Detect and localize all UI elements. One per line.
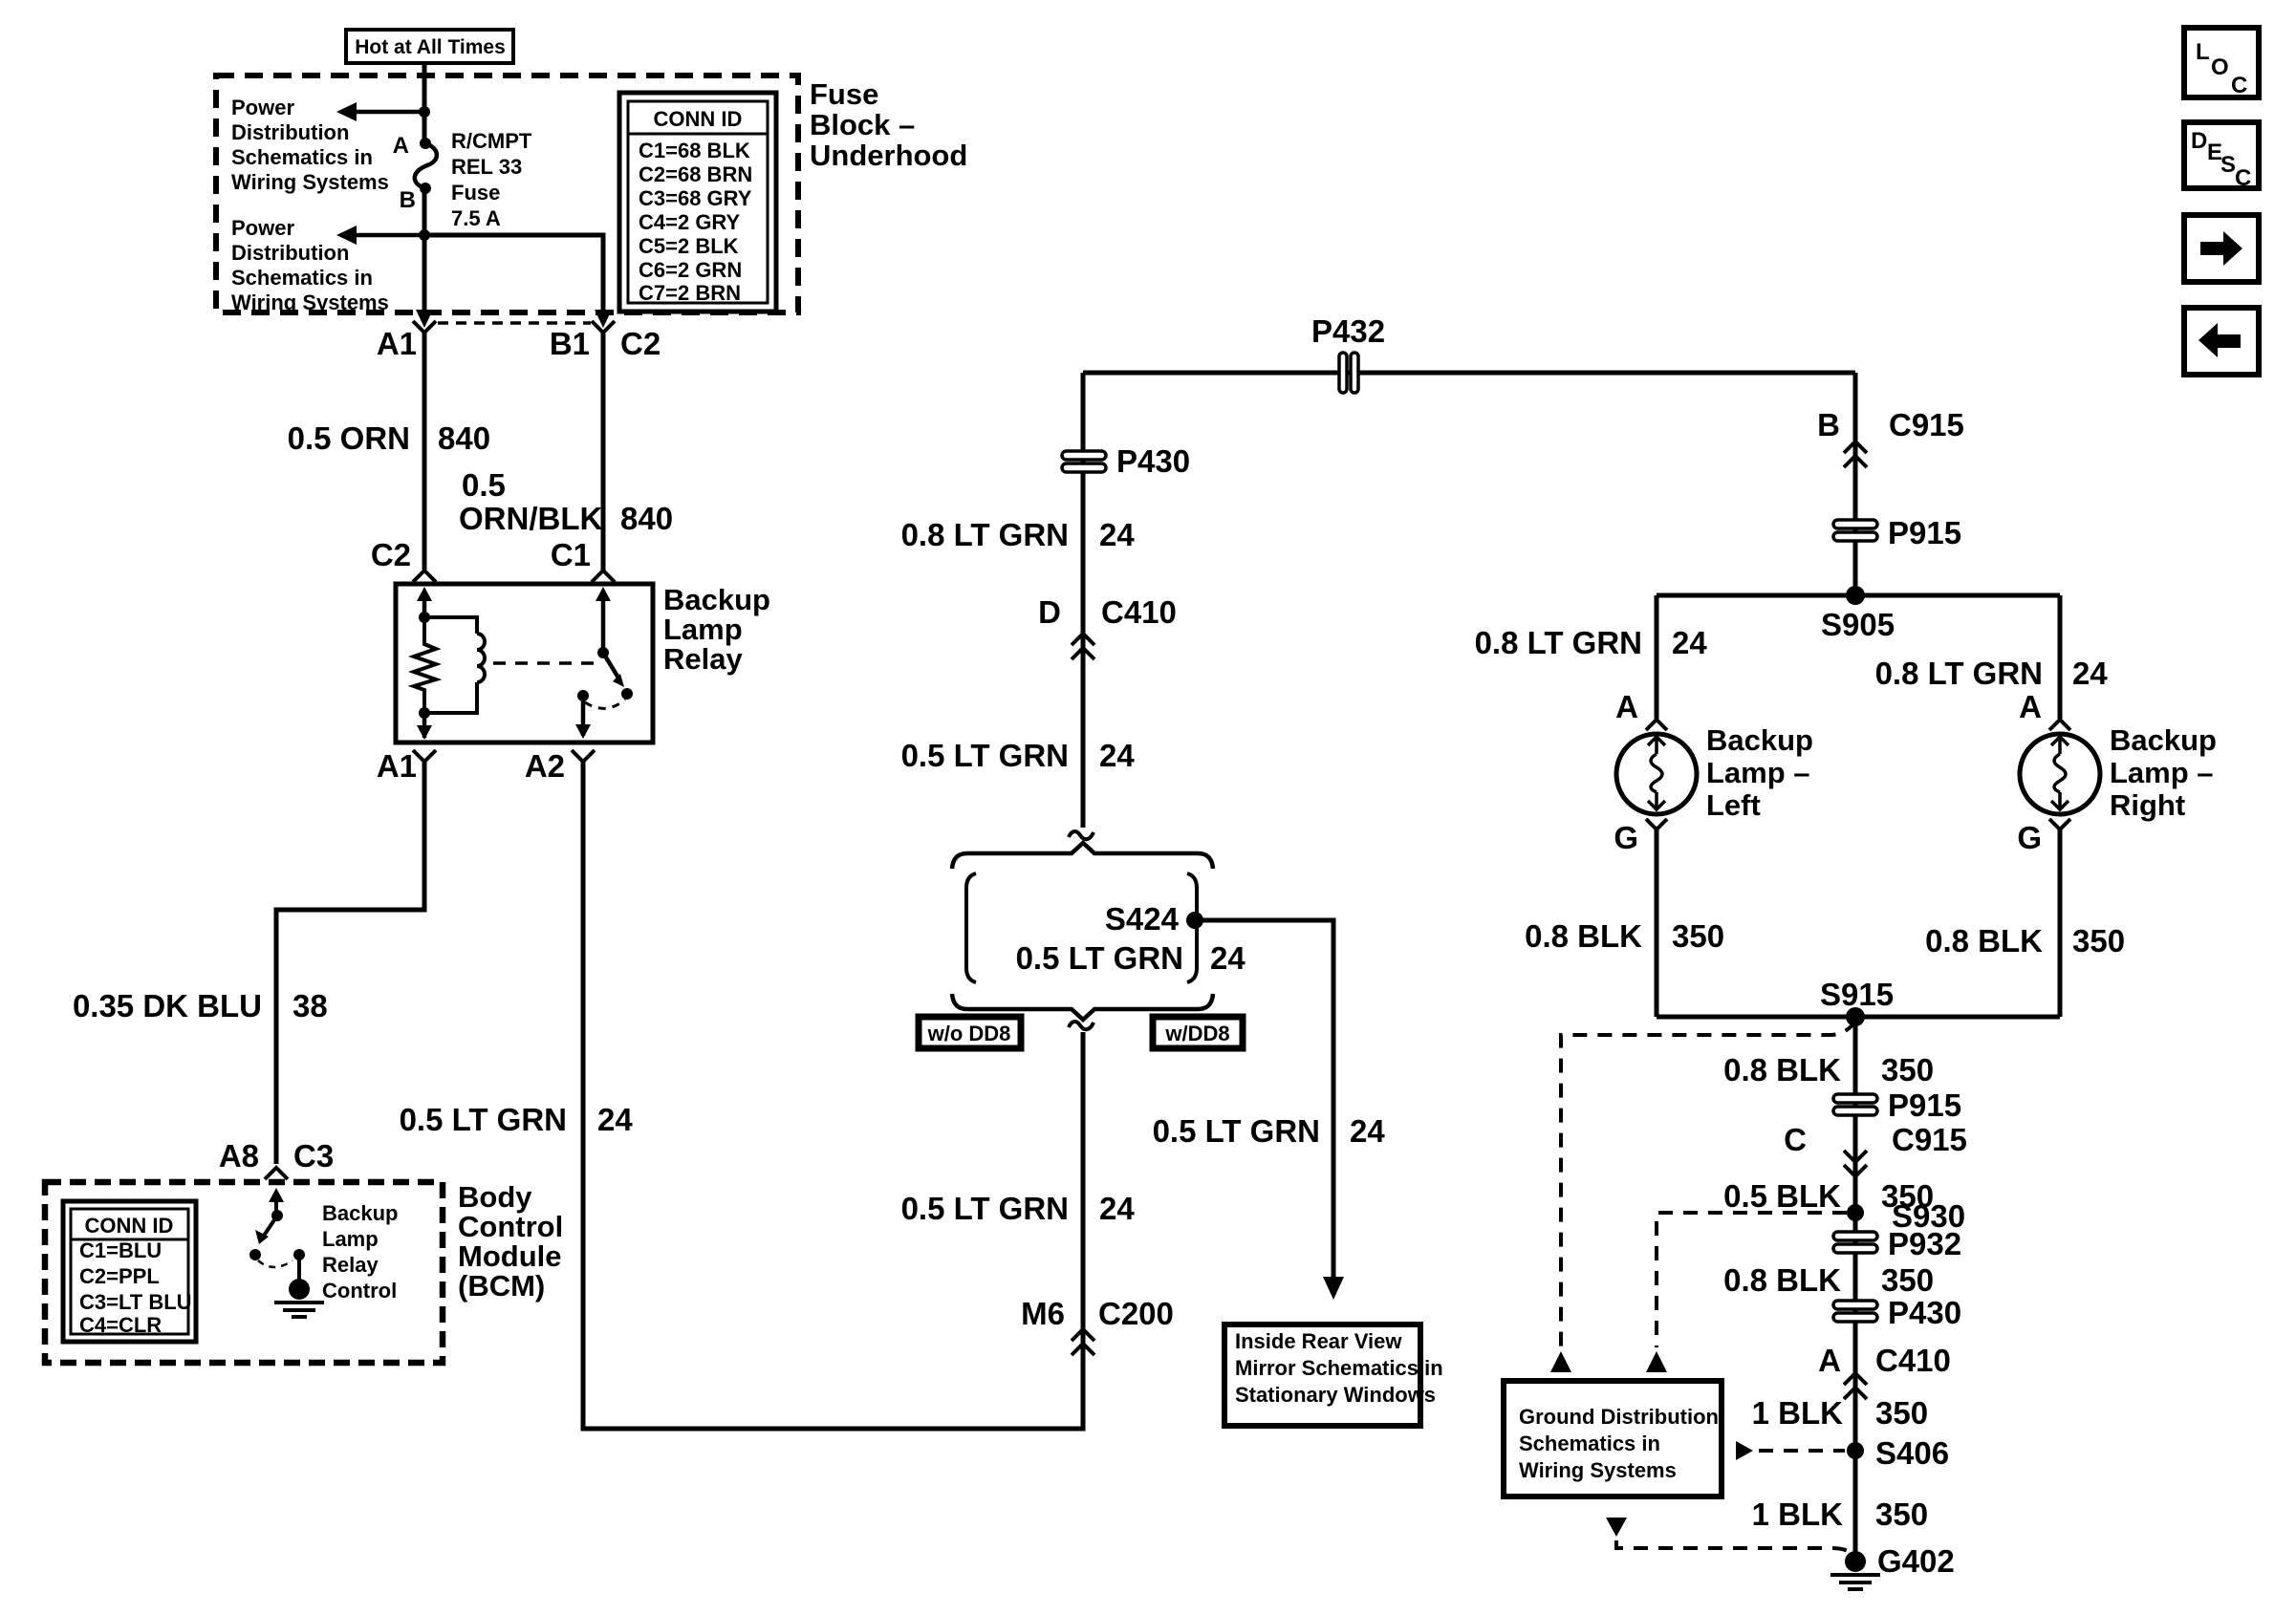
svg-text:38: 38 [292, 988, 328, 1023]
wire: 0.5 ORN/BLK 840 [601, 333, 606, 571]
svg-text:O: O [2211, 54, 2229, 80]
svg-text:D: D [2191, 128, 2207, 154]
svg-text:C410: C410 [1875, 1343, 1951, 1378]
splice S930 [1847, 1204, 1864, 1221]
relay coil [424, 617, 477, 634]
svg-text:Wiring Systems: Wiring Systems [1519, 1458, 1677, 1482]
svg-text:Left: Left [1706, 788, 1761, 822]
svg-text:D: D [1038, 594, 1061, 630]
pin A2 chevron [572, 750, 595, 762]
fuse block dashed box [216, 75, 798, 312]
lamp left pin G chevron [1646, 819, 1667, 829]
svg-text:350: 350 [1672, 918, 1724, 954]
svg-text:24: 24 [1672, 625, 1707, 660]
svg-text:0.8 BLK: 0.8 BLK [1723, 1262, 1841, 1298]
svg-text:G: G [2017, 820, 2042, 855]
svg-text:24: 24 [1210, 940, 1245, 976]
lamp left pin A chevron [1646, 720, 1667, 730]
svg-text:Mirror Schematics in: Mirror Schematics in [1235, 1356, 1443, 1380]
svg-text:840: 840 [438, 420, 490, 456]
wire: lamp feed horizontal S905 [1657, 593, 2060, 598]
svg-text:0.8 LT GRN: 0.8 LT GRN [1475, 625, 1642, 660]
arrowhead up left [1550, 1351, 1571, 1372]
svg-text:P915: P915 [1888, 515, 1961, 550]
svg-text:C6=2 GRN: C6=2 GRN [639, 258, 742, 282]
svg-text:C1=BLU: C1=BLU [79, 1238, 162, 1262]
svg-text:Backup: Backup [322, 1201, 398, 1225]
inside rear view mirror note box [1224, 1324, 1420, 1426]
svg-text:C3: C3 [293, 1138, 334, 1174]
wire: to right backup lamp [2058, 595, 2063, 719]
svg-text:P430: P430 [1116, 443, 1190, 479]
svg-text:C200: C200 [1098, 1296, 1174, 1331]
svg-text:P915: P915 [1888, 1087, 1961, 1123]
svg-text:24: 24 [1099, 1191, 1135, 1226]
junction: feed split 2 [419, 229, 430, 241]
ground G402 [1845, 1551, 1866, 1572]
svg-text:C: C [2231, 73, 2247, 98]
svg-text:0.5 LT GRN: 0.5 LT GRN [1016, 940, 1183, 976]
brace top [952, 843, 1213, 869]
relay pin C2 chevron [413, 571, 436, 582]
wire: S915 ground bus [1657, 1015, 2060, 1020]
svg-text:C7=2 BRN: C7=2 BRN [639, 281, 741, 305]
wire: battery feed from Hot at All Times [422, 63, 427, 141]
switch contact [577, 690, 589, 701]
arrow: to Power Distribution (upper) [355, 110, 424, 115]
lamp right pin G chevron [2049, 819, 2070, 829]
svg-text:0.5 LT GRN: 0.5 LT GRN [1153, 1113, 1320, 1149]
Hot at All Times box [346, 30, 513, 63]
svg-text:C2: C2 [620, 326, 661, 361]
svg-text:0.5 LT GRN: 0.5 LT GRN [901, 1191, 1069, 1226]
svg-text:0.35 DK BLU: 0.35 DK BLU [73, 988, 262, 1023]
svg-text:C1: C1 [551, 537, 591, 572]
svg-text:Distribution: Distribution [231, 241, 349, 265]
svg-text:350: 350 [1875, 1395, 1928, 1431]
svg-text:24: 24 [1350, 1113, 1385, 1149]
svg-text:Control: Control [458, 1210, 563, 1243]
svg-text:0.8 BLK: 0.8 BLK [1525, 918, 1642, 954]
junction: feed split 1 [419, 106, 430, 118]
wire: down to C915 B [1853, 373, 1858, 595]
svg-text:0.8 LT GRN: 0.8 LT GRN [1875, 656, 2043, 691]
wire: relay A1 to BCM A8 (0.35 DK BLU 38) [276, 762, 424, 1164]
svg-text:P932: P932 [1888, 1226, 1961, 1261]
svg-text:Block –: Block – [810, 108, 915, 141]
lamp right pin A chevron [2049, 720, 2070, 730]
svg-text:350: 350 [1875, 1497, 1928, 1532]
svg-text:Wiring Systems: Wiring Systems [231, 291, 389, 314]
svg-text:Lamp: Lamp [322, 1227, 379, 1251]
svg-text:Right: Right [2110, 788, 2185, 822]
svg-text:C5=2 BLK: C5=2 BLK [639, 234, 739, 258]
svg-text:A2: A2 [525, 748, 565, 784]
wire break squiggle upper [1069, 831, 1094, 839]
svg-text:A: A [2019, 689, 2042, 724]
svg-text:(BCM): (BCM) [458, 1269, 545, 1303]
svg-text:Backup: Backup [1706, 723, 1813, 757]
switch blade end contact [621, 688, 633, 700]
arrowhead down at A1 exit [416, 310, 433, 328]
svg-text:ORN/BLK: ORN/BLK [459, 501, 602, 536]
svg-text:Wiring Systems: Wiring Systems [231, 170, 389, 194]
pin A1 chevron [413, 750, 436, 762]
fuse R/CMPT REL 33 7.5A [420, 138, 431, 149]
svg-text:w/o DD8: w/o DD8 [927, 1022, 1011, 1045]
pin A1 chevron [413, 321, 436, 333]
svg-text:Hot at All Times: Hot at All Times [355, 36, 506, 58]
svg-text:Lamp –: Lamp – [2110, 756, 2214, 789]
svg-text:0.8 BLK: 0.8 BLK [1723, 1052, 1841, 1087]
icon box LOC [2184, 28, 2259, 97]
svg-text:CONN ID: CONN ID [654, 107, 743, 131]
CONN ID table (fuse block) [619, 93, 776, 312]
icon box DESC [2184, 122, 2259, 188]
svg-text:A: A [393, 133, 409, 159]
svg-text:7.5 A: 7.5 A [451, 206, 501, 230]
w/o DD8 tag [919, 1017, 1021, 1048]
svg-text:C: C [2235, 165, 2251, 191]
connector P932 [1833, 1232, 1877, 1240]
w/DD8 tag [1153, 1017, 1243, 1048]
svg-text:Inside Rear View: Inside Rear View [1235, 1329, 1402, 1353]
svg-text:C410: C410 [1101, 594, 1177, 630]
arrow: to Power Distribution (lower) [355, 233, 424, 238]
svg-text:0.8 BLK: 0.8 BLK [1925, 923, 2043, 958]
svg-text:350: 350 [1881, 1052, 1934, 1087]
svg-text:C3=LT BLU: C3=LT BLU [79, 1290, 192, 1314]
svg-text:0.5 BLK: 0.5 BLK [1723, 1178, 1841, 1214]
connector C410 double chevron [1072, 634, 1094, 645]
svg-text:Lamp –: Lamp – [1706, 756, 1810, 789]
splice S406 [1847, 1442, 1864, 1459]
svg-text:S905: S905 [1821, 607, 1895, 642]
svg-text:1 BLK: 1 BLK [1752, 1497, 1844, 1532]
svg-text:P430: P430 [1888, 1295, 1961, 1330]
wire: relay A2 down-right-up to M6 C200 (0.5 LT GRN 24) [583, 762, 1083, 1429]
svg-text:0.5 LT GRN: 0.5 LT GRN [901, 738, 1069, 773]
splice S424 [1186, 912, 1203, 929]
svg-text:24: 24 [1099, 517, 1135, 552]
svg-text:Lamp: Lamp [663, 613, 743, 646]
relay: switch pin out arrow (A2) [581, 696, 586, 736]
arrowhead down at B1 exit [595, 310, 612, 328]
dashed link: S915 to ground distribution [1561, 1021, 1855, 1347]
svg-text:S: S [2220, 152, 2236, 178]
svg-text:24: 24 [597, 1102, 633, 1137]
splice S915 [1846, 1007, 1865, 1026]
wire: S424 to inside rear view mirror (w/DD8) [1195, 920, 1333, 1277]
alt marker right (w/DD8 path) [1187, 873, 1197, 982]
arrowhead up right [1646, 1351, 1667, 1372]
svg-text:0.5 LT GRN: 0.5 LT GRN [400, 1102, 567, 1137]
switch blade arrowhead [613, 674, 624, 687]
svg-text:Body: Body [458, 1180, 532, 1214]
svg-text:C915: C915 [1889, 407, 1964, 442]
connector C200 double chevron [1072, 1329, 1094, 1341]
svg-text:C2=68 BRN: C2=68 BRN [639, 162, 752, 186]
svg-text:Stationary Windows: Stationary Windows [1235, 1383, 1436, 1407]
wire: below braces to M6 [1081, 1032, 1086, 1349]
relay resistor [414, 617, 436, 713]
connector C915 double chevron down [1844, 1151, 1867, 1162]
svg-text:C1=68 BLK: C1=68 BLK [639, 139, 750, 162]
svg-text:350: 350 [1881, 1262, 1934, 1298]
connector P915 upper [1833, 520, 1877, 528]
relay: coil pin out arrow (A1) [422, 713, 427, 738]
connector P432 [1339, 353, 1347, 393]
svg-text:CONN ID: CONN ID [85, 1214, 174, 1238]
svg-text:Relay: Relay [663, 642, 743, 676]
svg-text:C915: C915 [1892, 1122, 1967, 1157]
svg-text:Schematics in: Schematics in [231, 266, 373, 290]
svg-text:Power: Power [231, 96, 294, 119]
BCM dashed box [45, 1182, 443, 1363]
backup lamp left bulb [1616, 734, 1697, 814]
svg-text:Power: Power [231, 216, 294, 240]
svg-text:24: 24 [1099, 738, 1135, 773]
svg-text:Fuse: Fuse [810, 77, 878, 111]
svg-text:0.5 ORN: 0.5 ORN [288, 420, 410, 456]
svg-text:840: 840 [620, 501, 673, 536]
svg-text:G402: G402 [1877, 1543, 1955, 1579]
connector C410 double chevron up [1844, 1373, 1867, 1385]
arrowhead down below box [1606, 1518, 1627, 1537]
svg-text:P432: P432 [1311, 313, 1385, 349]
svg-text:A8: A8 [219, 1138, 259, 1174]
svg-text:REL 33: REL 33 [451, 155, 522, 179]
svg-text:S915: S915 [1820, 977, 1894, 1012]
svg-text:B: B [1817, 407, 1840, 442]
svg-text:B1: B1 [550, 326, 590, 361]
svg-text:A1: A1 [377, 748, 417, 784]
arrowhead to mirror schematics [1323, 1277, 1344, 1300]
svg-text:B: B [400, 187, 416, 213]
svg-text:Fuse: Fuse [451, 181, 500, 205]
wire: fuse output [422, 188, 427, 315]
wire break squiggle lower [1069, 1022, 1094, 1029]
svg-text:Backup: Backup [663, 583, 770, 616]
splice S905 [1846, 586, 1865, 605]
BCM pin A8 chevron [265, 1168, 288, 1179]
svg-text:C2: C2 [371, 537, 411, 572]
svg-text:C2=PPL: C2=PPL [79, 1264, 160, 1288]
svg-text:S424: S424 [1105, 901, 1180, 937]
connector P430 lower [1833, 1301, 1877, 1309]
svg-text:L: L [2196, 39, 2210, 65]
svg-text:M6: M6 [1021, 1296, 1065, 1331]
wire: to left backup lamp [1655, 595, 1659, 719]
svg-text:C: C [1784, 1122, 1807, 1157]
svg-text:C4=CLR: C4=CLR [79, 1313, 162, 1337]
relay: dashed actuation link [493, 661, 596, 665]
ground distribution note box [1504, 1381, 1722, 1497]
relay: coil-side pin arrow (C2 in) [422, 592, 427, 617]
wire: middle LT GRN branch [1081, 373, 1086, 828]
svg-text:Relay: Relay [322, 1253, 379, 1277]
BCM driver switch [274, 1196, 278, 1214]
svg-text:24: 24 [2072, 656, 2108, 691]
svg-text:1 BLK: 1 BLK [1752, 1395, 1844, 1431]
wire: ground chain S915 to G402 [1853, 1017, 1858, 1561]
connector C915 double chevron [1844, 441, 1867, 453]
icon box arrow right [2184, 215, 2259, 282]
svg-text:Underhood: Underhood [810, 139, 967, 172]
svg-text:Control: Control [322, 1279, 397, 1303]
svg-text:Ground Distribution: Ground Distribution [1519, 1405, 1719, 1429]
svg-text:Schematics in: Schematics in [1519, 1432, 1660, 1455]
svg-text:0.8 LT GRN: 0.8 LT GRN [901, 517, 1069, 552]
svg-text:A1: A1 [377, 326, 417, 361]
connector P915 lower [1833, 1094, 1877, 1103]
svg-text:w/DD8: w/DD8 [1164, 1022, 1229, 1045]
relay internal node bottom [419, 707, 430, 719]
relay switch (C1 in) [601, 592, 606, 653]
brace bottom [952, 994, 1213, 1020]
relay pin C1 chevron [592, 571, 615, 582]
wire: branch to B1 [424, 235, 603, 315]
relay internal node top [419, 612, 430, 623]
pin B1 chevron [592, 321, 615, 333]
wire: top horizontal to P432 and C915 [1083, 371, 1855, 376]
svg-text:C4=2 GRY: C4=2 GRY [639, 210, 741, 234]
svg-text:0.5: 0.5 [462, 467, 506, 503]
backup lamp relay box [396, 584, 653, 743]
arrowhead right to S406 [1736, 1441, 1753, 1460]
svg-text:R/CMPT: R/CMPT [451, 129, 532, 153]
CONN ID table (BCM) [63, 1201, 196, 1342]
svg-text:Backup: Backup [2110, 723, 2217, 757]
svg-text:A: A [1818, 1343, 1841, 1378]
svg-text:G: G [1614, 820, 1638, 855]
svg-text:S406: S406 [1875, 1435, 1949, 1471]
svg-text:350: 350 [2072, 923, 2125, 958]
svg-text:Schematics in: Schematics in [231, 145, 373, 169]
connector P430 [1062, 451, 1106, 460]
svg-text:Module: Module [458, 1239, 562, 1273]
wire: 0.5 ORN 840 [422, 333, 427, 570]
svg-text:A: A [1615, 689, 1638, 724]
svg-text:Distribution: Distribution [231, 120, 349, 144]
alt marker left (w/o DD8 path) [966, 873, 976, 982]
BCM internal ground [289, 1279, 310, 1300]
svg-text:C3=68 GRY: C3=68 GRY [639, 186, 752, 210]
backup lamp right bulb [2020, 734, 2100, 814]
dashed link: S930 to ground distribution [1657, 1213, 1847, 1347]
icon box arrow left [2184, 308, 2259, 375]
